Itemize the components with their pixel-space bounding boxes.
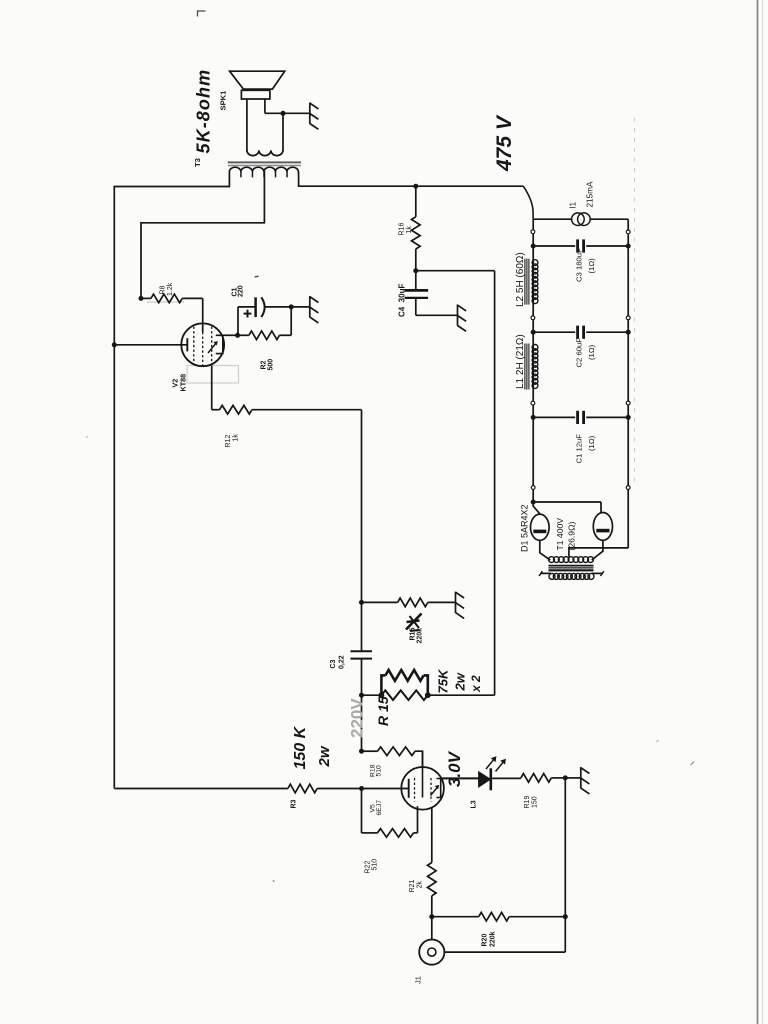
junction plate bus — [112, 342, 117, 347]
svg-text:T1 400V: T1 400V — [555, 518, 565, 551]
T3 primary — [229, 167, 298, 176]
wire V2 grid lead down — [211, 366, 213, 410]
junction V5 grid — [359, 786, 364, 791]
svg-text:R16: R16 — [399, 223, 406, 236]
svg-text:510: 510 — [372, 859, 379, 871]
svg-text:R12: R12 — [225, 435, 232, 448]
junction rectifier node — [531, 500, 536, 505]
svg-text:R20: R20 — [482, 934, 489, 947]
svg-text:R8: R8 — [160, 285, 167, 294]
capacitor C4 30uF — [415, 271, 417, 289]
svg-text:(1Ω): (1Ω) — [587, 258, 596, 274]
ground LED — [580, 767, 582, 788]
svg-text:R 15: R 15 — [375, 696, 391, 726]
svg-text:510: 510 — [376, 765, 383, 777]
wire cathode to LED — [441, 777, 479, 779]
junctions cap branches — [531, 244, 536, 249]
capacitor C1 220 — [254, 297, 257, 317]
V2 plate bar — [186, 338, 188, 351]
resistor R12 1k — [220, 405, 253, 414]
ghost line near right bus — [634, 118, 636, 482]
junction R18 — [359, 749, 364, 754]
tube V5 6EJ7 envelope — [401, 767, 444, 810]
junction grid-leak — [359, 600, 364, 605]
connector circles right bus — [626, 230, 630, 234]
junction C4 — [413, 268, 418, 273]
svg-text:1k: 1k — [406, 226, 413, 234]
transformer T3 secondary — [247, 150, 283, 155]
resistor 75K handwritten upper — [381, 675, 385, 695]
inductor L2 5H (60&#937;) — [532, 260, 538, 266]
resistor R15 220k — [398, 598, 428, 607]
left chain bus — [532, 219, 534, 502]
capacitor C2 60uF — [533, 331, 575, 333]
svg-text:SPK1: SPK1 — [219, 90, 228, 111]
svg-text:L2 5H (60Ω): L2 5H (60Ω) — [515, 252, 526, 307]
resistor R3 150K — [288, 784, 317, 793]
wire D1b to T1 — [592, 540, 603, 560]
resistor R19 150 — [521, 774, 551, 783]
rectifier D1b — [593, 513, 612, 541]
wire to secondary — [282, 113, 284, 151]
transformer T1 primary — [549, 557, 555, 563]
V5 bottom leads — [417, 806, 419, 833]
wire feedback bus bottom — [114, 788, 288, 790]
svg-text:1.2k: 1.2k — [167, 282, 174, 296]
svg-text:215mA: 215mA — [586, 181, 595, 207]
svg-text:R21: R21 — [409, 880, 416, 893]
svg-text:R19: R19 — [524, 796, 531, 809]
resistor R18 510 — [378, 747, 416, 756]
resistor R2 500 — [249, 331, 280, 340]
wire cathode node — [224, 334, 238, 336]
svg-text:KT88: KT88 — [179, 374, 188, 392]
svg-text:(1Ω): (1Ω) — [587, 344, 596, 360]
jack J1 — [419, 940, 444, 965]
wire 475V hook — [523, 186, 533, 219]
resistor R22 510 — [378, 829, 414, 838]
T1 secondary leads — [541, 572, 552, 574]
speaker SPK1 — [230, 71, 285, 89]
svg-text:6EJ7: 6EJ7 — [376, 800, 383, 816]
V5 plate lead inside — [422, 751, 424, 797]
svg-text:T3: T3 — [193, 158, 202, 167]
wire T3 center tap — [141, 171, 264, 298]
wire below C13 — [361, 659, 363, 752]
junction R15 parallel — [359, 693, 364, 698]
junction C1/R2 — [289, 304, 294, 309]
wire screen lead — [202, 298, 204, 332]
svg-text:R2: R2 — [261, 360, 268, 369]
wire speaker right lead — [264, 99, 266, 113]
svg-text:R22: R22 — [365, 861, 372, 874]
wire fuse to right bus — [590, 218, 628, 220]
resistor R16 1k — [412, 217, 421, 249]
svg-text:3.0V: 3.0V — [445, 750, 464, 787]
svg-text:2w: 2w — [316, 745, 333, 767]
V2 cathode — [216, 335, 223, 353]
svg-text:220k: 220k — [490, 931, 497, 947]
wire speaker left lead — [246, 99, 248, 151]
svg-text:150: 150 — [532, 796, 539, 808]
stray mark top-left — [198, 11, 206, 17]
junction — [281, 111, 286, 116]
svg-text:(26.9Ω): (26.9Ω) — [567, 521, 577, 550]
svg-text:C1 12uF: C1 12uF — [575, 434, 584, 464]
svg-text:L1 2H (21Ω): L1 2H (21Ω) — [515, 334, 526, 389]
page edge artifact — [757, 0, 759, 1024]
svg-text:I1: I1 — [569, 202, 578, 209]
wire C4 branch to R15 leg — [416, 270, 495, 272]
LED arrows — [486, 758, 495, 769]
tube V2 KT88 envelope — [181, 323, 224, 366]
stray dash near C1 — [255, 275, 259, 278]
ground near speaker — [309, 103, 311, 124]
wire cathode up to C1 — [237, 307, 239, 335]
wire C1 to junction — [264, 306, 291, 308]
svg-text:C3: C3 — [330, 659, 337, 668]
junction R8 — [139, 296, 144, 301]
wire plate to feedback bus — [114, 344, 187, 346]
svg-text:J1: J1 — [414, 976, 423, 984]
capacitor C3 180uF — [533, 245, 575, 247]
svg-text:x 2: x 2 — [469, 675, 483, 693]
wire T3 primary left to rail corner — [114, 176, 229, 789]
V2 grids dashed — [193, 327, 195, 364]
svg-text:C4 30uF: C4 30uF — [398, 284, 407, 317]
wire down to R22 — [361, 789, 363, 833]
wire to ground — [265, 112, 310, 114]
LED L3 — [479, 772, 491, 787]
resistor R20 220k — [479, 912, 510, 921]
junction R20 — [429, 914, 434, 919]
wire T3 primary right to B+ rail — [299, 176, 524, 186]
svg-text:L3: L3 — [471, 800, 478, 808]
svg-text:475 V: 475 V — [493, 114, 516, 172]
svg-text:75K: 75K — [436, 668, 451, 693]
capacitor C13 0.22 — [351, 650, 373, 652]
svg-text:D1 5AR4X2: D1 5AR4X2 — [520, 504, 530, 552]
T3 core — [228, 161, 301, 163]
capacitor C1 12uF — [533, 416, 575, 418]
wire center tap to return — [569, 548, 628, 557]
svg-text:0,22: 0,22 — [339, 655, 346, 669]
resistor R15 75K lower — [381, 690, 427, 700]
svg-text:(1Ω): (1Ω) — [587, 435, 596, 451]
svg-text:2k: 2k — [417, 881, 424, 889]
svg-text:220V: 220V — [348, 698, 367, 738]
wire to cathode ground — [291, 306, 310, 308]
ground cathode network — [309, 296, 311, 317]
inductor L1 2H (21&#937;) — [532, 345, 538, 351]
V5 grids dashed — [414, 778, 416, 802]
V5 cathode — [437, 779, 441, 798]
rectifier D1a — [531, 514, 550, 540]
ground grid-leak — [455, 592, 457, 613]
right return bus — [627, 219, 629, 548]
junction R16 top — [413, 184, 418, 189]
stray specks — [86, 436, 88, 438]
wire J1 to ground bus — [444, 951, 565, 953]
svg-text:150 K: 150 K — [292, 725, 309, 769]
resistor R21 2k — [428, 863, 437, 896]
wire D1a to T1 — [540, 540, 550, 560]
svg-text:220: 220 — [238, 285, 245, 297]
fuse I1 215mA — [572, 213, 585, 226]
svg-text:R3: R3 — [291, 799, 298, 808]
wire chain top to fuse I1 — [533, 218, 572, 220]
plus sign — [244, 313, 252, 315]
connector circles left bus — [531, 230, 535, 234]
svg-text:2w: 2w — [453, 672, 468, 691]
wire to C4 ground — [416, 314, 458, 316]
V5 grid bar — [408, 779, 410, 798]
wire R15 to supply leg — [428, 694, 495, 696]
resistor R8 1.2k — [151, 294, 182, 303]
svg-text:C3 180uF: C3 180uF — [575, 248, 584, 282]
T1 secondary — [549, 573, 555, 579]
ground C4 — [457, 305, 459, 326]
T1 core — [549, 564, 594, 566]
wire coupling bus down — [361, 410, 363, 651]
svg-text:1k: 1k — [233, 434, 240, 442]
svg-text:5K-8ohm: 5K-8ohm — [194, 69, 214, 154]
ghost box near V2 — [187, 366, 239, 384]
svg-text:C2 60uF: C2 60uF — [575, 338, 584, 368]
junction R19/ground — [563, 775, 568, 780]
svg-text:500: 500 — [268, 359, 275, 371]
wire to diode tops — [533, 502, 540, 514]
